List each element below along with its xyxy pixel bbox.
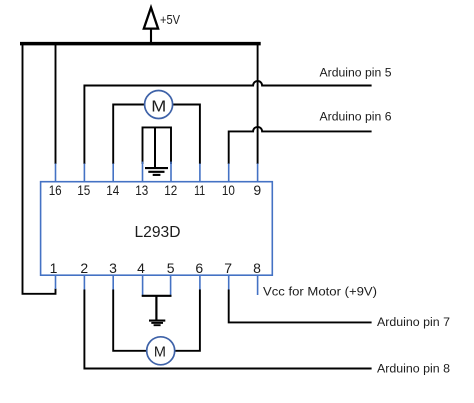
wire: bottom ground stem: [155, 296, 157, 320]
svg-text:L293D: L293D: [135, 224, 181, 241]
svg-text:1: 1: [50, 260, 58, 276]
svg-text:2: 2: [80, 260, 88, 276]
wire: rail to pin 16: [55, 44, 57, 164]
pin 9 stub (blue): [257, 164, 259, 182]
wire: pin 6 to motor M2 right lead: [175, 290, 200, 351]
wire: rail to pin 9: [257, 44, 259, 164]
IC U1 L293D body: [41, 182, 273, 276]
pin 2 stub (blue): [83, 275, 85, 290]
svg-text:9: 9: [253, 182, 261, 198]
pin 5 stub (blue): [170, 275, 172, 296]
pin 14 stub (blue): [112, 164, 114, 182]
pin 15 stub (blue): [83, 164, 85, 182]
pin 3 stub (blue): [112, 275, 114, 290]
svg-text:8: 8: [253, 260, 261, 276]
svg-text:15: 15: [77, 182, 90, 198]
svg-text:Vcc for Motor (+9V): Vcc for Motor (+9V): [263, 286, 377, 298]
svg-text:13: 13: [135, 182, 148, 198]
wire: rail left end down and over to pin 1: [23, 44, 56, 294]
svg-text:10: 10: [222, 182, 235, 198]
pin 10 stub (blue): [228, 164, 230, 182]
pin 16 stub (blue): [55, 164, 57, 182]
wire: ground bracket joining pins 4 and 5: [142, 295, 172, 297]
wire: pin 7 to Arduino pin 7: [229, 290, 372, 323]
svg-text:M: M: [154, 345, 166, 361]
svg-text:5: 5: [167, 260, 175, 276]
wire: Arduino pin 5 to pin 15 (hop over pin 9 wire): [84, 81, 371, 164]
pin 6 stub (blue): [199, 275, 201, 290]
svg-text:+5V: +5V: [160, 12, 180, 27]
svg-text:Arduino pin 8: Arduino pin 8: [377, 363, 450, 375]
svg-text:14: 14: [106, 182, 119, 198]
svg-text:4: 4: [137, 260, 145, 276]
svg-text:Arduino pin 6: Arduino pin 6: [320, 112, 392, 124]
+5V power symbol: [144, 8, 158, 45]
+5V power rail: [20, 42, 261, 46]
svg-text:M: M: [151, 98, 166, 115]
svg-text:12: 12: [164, 182, 177, 198]
wire: top ground stem: [154, 127, 156, 167]
motor M2 (bottom): [147, 337, 175, 365]
wire: pin 3 to motor M2 left lead: [113, 290, 147, 351]
wire: motor M1 right lead to pin 11: [172, 105, 200, 165]
wire: pin 2 to Arduino pin 8: [84, 290, 371, 369]
svg-text:16: 16: [49, 182, 62, 198]
pin 1 stub (blue): [55, 275, 57, 289]
svg-text:11: 11: [194, 182, 205, 198]
svg-text:Arduino pin 5: Arduino pin 5: [320, 67, 392, 79]
motor M1 (top): [145, 91, 173, 119]
svg-text:Arduino pin 7: Arduino pin 7: [377, 317, 450, 329]
pin 7 stub (blue): [228, 275, 230, 290]
pin 8 stub (blue): [257, 275, 259, 295]
ground symbol (top): [145, 168, 168, 175]
pin 13 stub (blue): [142, 162, 144, 182]
pin 11 stub (blue): [199, 164, 201, 182]
wire: Arduino pin 6 to pin 10 (hop over pin 9 wire): [229, 127, 372, 164]
wire: pins 13 and 12 up to ground bracket (top): [143, 127, 172, 164]
ground symbol (bottom): [149, 321, 165, 326]
svg-text:3: 3: [109, 260, 117, 276]
wire: motor M1 left lead to pin 14: [113, 105, 145, 165]
svg-text:7: 7: [224, 260, 232, 276]
pin 12 stub (blue): [170, 162, 172, 182]
svg-text:6: 6: [195, 260, 203, 276]
pin 4 stub (blue): [142, 275, 144, 296]
